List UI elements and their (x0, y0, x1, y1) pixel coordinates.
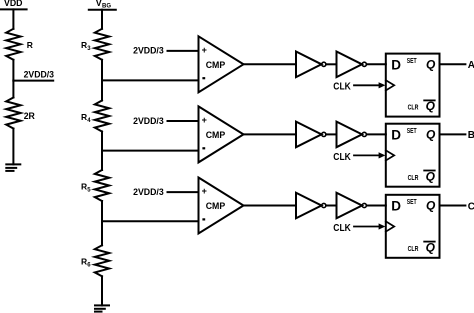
svg-text:CMP: CMP (206, 130, 226, 141)
svg-text:SET: SET (407, 128, 418, 135)
wire (101, 60, 103, 101)
wire (440, 205, 466, 207)
svg-text:2VDD/3: 2VDD/3 (133, 46, 164, 57)
svg-text:Q: Q (426, 127, 436, 141)
wire (102, 79, 199, 81)
resistor 2R (6, 98, 35, 129)
svg-text:+: + (202, 186, 207, 196)
svg-text:D: D (391, 58, 401, 73)
label CLK row 3 (333, 222, 351, 234)
svg-text:Q: Q (426, 199, 436, 213)
svg-text:D: D (391, 199, 401, 214)
wire (12, 129, 14, 165)
svg-text:CLK: CLK (333, 81, 351, 93)
svg-text:+: + (202, 45, 207, 55)
wire (12, 9, 14, 28)
svg-text:B: B (468, 130, 474, 141)
flip-flop FF2 (386, 124, 440, 187)
svg-text:V: V (96, 0, 102, 8)
svg-text:CLR: CLR (408, 246, 419, 253)
resistor R3 (81, 29, 109, 60)
svg-text:+: + (202, 115, 207, 125)
wire (326, 63, 337, 65)
wire (168, 191, 199, 193)
wire (101, 10, 103, 29)
node 2VDD/3 ref row 3 (133, 187, 164, 198)
wire (326, 133, 337, 135)
svg-text:CMP: CMP (206, 201, 226, 212)
svg-text:2VDD/3: 2VDD/3 (133, 116, 164, 127)
comparator CMP1 (199, 36, 244, 92)
node output A (468, 60, 474, 71)
svg-text:CLR: CLR (408, 175, 419, 182)
wire CLK arrow (354, 82, 385, 88)
wire (12, 60, 14, 81)
node output C (468, 201, 474, 212)
wire (12, 81, 14, 98)
svg-text:2VDD/3: 2VDD/3 (133, 187, 164, 198)
ground (6, 164, 20, 171)
wire (244, 133, 297, 135)
svg-text:CLR: CLR (408, 105, 419, 112)
wire (440, 63, 466, 65)
comparator CMP2 (199, 106, 244, 162)
wire (244, 63, 297, 65)
resistor R5 (81, 170, 109, 201)
power VDD (0, 0, 27, 9)
resistor R4 (81, 101, 109, 132)
wire (367, 133, 386, 135)
svg-text:Q: Q (426, 57, 436, 71)
svg-text:SET: SET (407, 58, 418, 65)
comparator CMP3 (199, 178, 244, 234)
flip-flop FF3 (386, 195, 440, 258)
wire (367, 205, 386, 207)
wire (367, 63, 386, 65)
resistor R6 (81, 245, 109, 276)
node 2VDD/3 (13, 70, 54, 81)
wire (102, 150, 199, 152)
node 2VDD/3 ref row 1 (133, 46, 164, 57)
svg-text:CMP: CMP (206, 60, 226, 71)
svg-text:CLK: CLK (333, 222, 351, 234)
wire (101, 132, 103, 171)
svg-text:A: A (468, 60, 474, 71)
wire (168, 50, 199, 52)
wire (101, 276, 103, 305)
wire (244, 205, 297, 207)
inverter U2a (296, 122, 326, 148)
flip-flop FF1 (386, 54, 440, 117)
wire CLK arrow (354, 152, 385, 158)
svg-text:VDD: VDD (4, 0, 23, 8)
power VBG (89, 0, 116, 10)
svg-text:2VDD/3: 2VDD/3 (24, 70, 54, 81)
node output B (468, 130, 474, 141)
wire (168, 120, 199, 122)
svg-text:C: C (468, 201, 474, 212)
svg-text:D: D (391, 128, 401, 143)
label CLK row 1 (333, 81, 351, 93)
svg-text:SET: SET (407, 199, 418, 206)
label CLK row 2 (333, 151, 351, 163)
svg-text:2R: 2R (24, 111, 36, 121)
wire (326, 205, 337, 207)
node 2VDD/3 ref row 2 (133, 116, 164, 127)
ground (95, 305, 109, 311)
svg-text:R: R (27, 40, 33, 50)
inverter U3a (296, 193, 326, 219)
inverter U2b (337, 122, 367, 148)
inverter U3b (337, 193, 367, 219)
wire (440, 133, 466, 135)
svg-text:CLK: CLK (333, 151, 351, 163)
inverter U1a (296, 52, 326, 78)
resistor R (6, 29, 33, 60)
wire (102, 220, 199, 222)
wire CLK arrow (354, 223, 385, 229)
wire (101, 201, 103, 245)
inverter U1b (337, 52, 367, 78)
svg-text:Q: Q (426, 169, 436, 183)
